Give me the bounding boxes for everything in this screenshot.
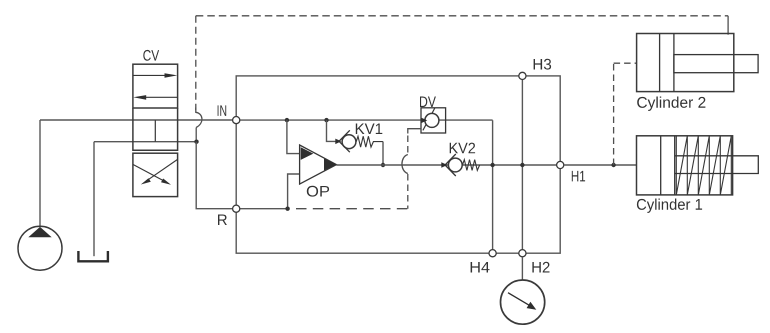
Cylinder 1 label	[637, 199, 702, 213]
junction R rail / OP return	[285, 207, 289, 211]
wire: R rail solid	[236, 208, 287, 210]
junction KV1 outlet on H rail	[381, 163, 385, 167]
IN label	[218, 105, 227, 116]
wire: DV pilot stub	[408, 129, 421, 134]
cylinder 1 spring	[676, 136, 731, 195]
R label	[218, 215, 227, 226]
Cylinder 2 label	[637, 97, 705, 111]
OP label	[307, 186, 329, 197]
dump valve DV	[421, 108, 446, 133]
H4 label	[471, 262, 490, 273]
KV1 label	[356, 124, 383, 135]
node H3	[519, 72, 526, 79]
wire: KV1 inlet branch	[327, 120, 338, 141]
wire: IN rail inside box	[236, 119, 492, 121]
H1 label	[572, 171, 585, 182]
pilot line: DV drop lower dashed	[407, 174, 409, 209]
pilot line hook crossing IN wire	[196, 108, 202, 128]
valve CV box B (blocked position)	[133, 108, 178, 150]
wire: H1 to Cylinder 1	[564, 164, 637, 166]
valve CV arrow left	[133, 95, 177, 100]
wire: vertical H3-H2	[521, 76, 523, 253]
DV label	[420, 97, 436, 108]
cylinder 2 piston	[660, 34, 674, 92]
node H1	[557, 161, 564, 168]
junction on IN rail at KV1 branch	[324, 118, 328, 122]
pilot line: riser to Cylinder 2	[613, 63, 615, 165]
wire: CV outlet down to R	[196, 142, 232, 209]
pilot line top: horizontal run	[196, 15, 728, 17]
valve CV X arrow to lower-right	[133, 165, 171, 185]
node R	[233, 205, 240, 212]
CV label	[143, 50, 159, 61]
wire: pump supply horizontal to IN	[40, 119, 233, 121]
wire: tank drop	[93, 142, 95, 257]
cylinder 1 piston	[661, 136, 675, 195]
valve CV box A (flow position)	[133, 64, 178, 108]
tank T	[78, 251, 108, 261]
wire: KV1 outlet drop	[382, 142, 384, 166]
junction cylinder branch	[611, 163, 615, 167]
wire: OP upper feed branch	[287, 120, 300, 154]
wire: H rail from OP to H1	[336, 164, 560, 166]
node H2	[519, 250, 526, 257]
junction on IN rail at OP branch	[285, 118, 289, 122]
pressure gauge	[500, 280, 544, 324]
check valve KV1	[335, 130, 383, 152]
oscillating pump OP	[300, 145, 337, 184]
junction H rail / H4 riser	[490, 163, 494, 167]
cylinder 2 rod	[674, 55, 758, 73]
cylinder 2 body	[637, 34, 734, 92]
pump P	[18, 226, 62, 270]
wire: gauge drop	[521, 257, 523, 280]
valve CV arrow right	[133, 73, 177, 78]
main manifold box	[236, 76, 560, 253]
valve CV box B center line	[154, 120, 156, 142]
wire: pump riser	[39, 120, 41, 226]
cylinder 1 body	[637, 136, 733, 195]
pilot line top: vertical from IN hook up	[195, 16, 197, 110]
wire: tank return horizontal	[94, 141, 197, 143]
junction CV outlet / pilot	[194, 140, 198, 144]
H2 label	[532, 262, 549, 273]
wire: pilot hook down to CV outlet junction	[195, 128, 197, 142]
pilot line: drop to Cylinder 2 rod side	[727, 16, 729, 35]
node H4	[489, 250, 496, 257]
node IN	[233, 117, 240, 124]
pilot line hop over H rail	[402, 155, 408, 174]
wire: vertical H4 riser	[492, 120, 494, 253]
pilot line: horizontal to R rail	[296, 208, 408, 210]
junction H rail / H3-H2 line	[520, 163, 524, 167]
pilot line: into Cylinder 2 cap	[614, 62, 637, 64]
cylinder 1 rod	[675, 156, 759, 174]
H3 label	[534, 59, 552, 70]
wire: OP lower return branch	[288, 174, 300, 209]
check valve KV2	[441, 154, 479, 176]
valve CV X arrow to lower-left	[141, 160, 178, 185]
valve CV box C (pilot X element)	[133, 153, 178, 196]
pilot line: DV drop upper dashed	[407, 136, 409, 155]
KV2 label	[450, 143, 475, 154]
